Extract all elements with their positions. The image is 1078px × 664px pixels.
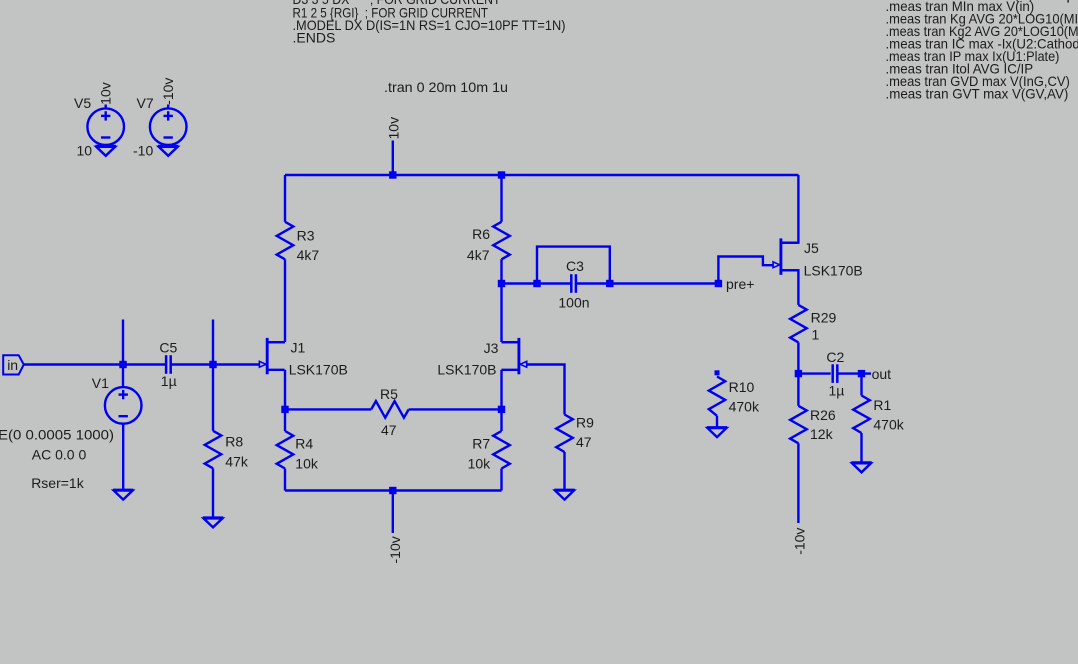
svg-text:V7: V7 bbox=[137, 95, 154, 111]
svg-text:47k: 47k bbox=[225, 454, 249, 470]
svg-text:1: 1 bbox=[812, 327, 820, 343]
svg-text:470k: 470k bbox=[873, 417, 904, 433]
ground at R1 bbox=[851, 463, 871, 473]
node I (C2 / out / R1) bbox=[858, 370, 865, 377]
wire V1 top lead bbox=[122, 365, 124, 388]
svg-text:100n: 100n bbox=[558, 294, 589, 310]
voltage source V7 bbox=[150, 108, 187, 145]
wire R6 top lead bbox=[500, 175, 502, 222]
ground at V5 bbox=[96, 146, 116, 156]
wire R26 bottom lead bbox=[797, 443, 799, 523]
capacitor C2 symbol bbox=[833, 364, 838, 383]
wire R29 bottom lead bbox=[797, 342, 799, 373]
svg-text:AC 0.0 0: AC 0.0 0 bbox=[32, 447, 87, 463]
wire C2 left lead bbox=[798, 372, 830, 374]
wire stub above node A bbox=[122, 320, 124, 365]
svg-text:10k: 10k bbox=[468, 456, 492, 472]
svg-text:pre+: pre+ bbox=[726, 276, 754, 292]
resistor R9 bbox=[556, 415, 573, 453]
svg-text:R29: R29 bbox=[811, 309, 837, 325]
wire R7 bottom lead bbox=[500, 469, 502, 491]
ground at R8 bbox=[203, 518, 223, 528]
ground at R10 bbox=[707, 427, 727, 437]
svg-text:R10: R10 bbox=[729, 379, 755, 395]
node E (R6 / C3 wire) bbox=[498, 280, 505, 287]
ground at V7 bbox=[158, 146, 178, 156]
svg-text:1µ: 1µ bbox=[161, 373, 177, 389]
node pre+ node bbox=[715, 280, 722, 287]
wire V1 bottom lead bbox=[122, 424, 124, 490]
svg-text:J1: J1 bbox=[291, 339, 306, 355]
node R10 floating node bbox=[715, 370, 720, 375]
wire -10v bottom rail bbox=[285, 489, 502, 491]
node H (R29 / C2 / R26) bbox=[795, 370, 802, 377]
transistor J1 bbox=[259, 338, 284, 374]
wire J1 drain to R3 bbox=[267, 341, 285, 343]
svg-text:12k: 12k bbox=[810, 426, 834, 442]
wire -10v supply stub bbox=[392, 491, 394, 534]
svg-text:470k: 470k bbox=[729, 399, 760, 415]
svg-text:-10v: -10v bbox=[792, 528, 808, 555]
svg-text:C5: C5 bbox=[159, 340, 177, 356]
wire 10v top rail bbox=[285, 174, 798, 176]
wire R4 bottom lead bbox=[284, 469, 286, 491]
spice directive text block (subcircuit model) bbox=[293, 0, 566, 46]
wire R26 top lead bbox=[797, 374, 799, 406]
capacitor C5 symbol bbox=[166, 355, 171, 374]
svg-text:.tran 0 20m 10m 1u: .tran 0 20m 10m 1u bbox=[384, 79, 508, 95]
node F (loop left) bbox=[533, 280, 540, 287]
transistor J5 bbox=[773, 238, 798, 274]
svg-text:J5: J5 bbox=[804, 240, 819, 256]
svg-text:-10: -10 bbox=[133, 143, 153, 159]
svg-text:R6: R6 bbox=[472, 226, 490, 242]
wire R10 bottom lead bbox=[716, 416, 718, 428]
svg-text:-10v: -10v bbox=[160, 78, 176, 105]
svg-text:10: 10 bbox=[77, 143, 93, 159]
svg-text:R7: R7 bbox=[472, 436, 490, 452]
svg-text:.ENDS: .ENDS bbox=[293, 30, 336, 46]
wire C5 to node B bbox=[171, 363, 260, 365]
wire R4 top lead bbox=[284, 409, 286, 431]
svg-text:10v: 10v bbox=[98, 82, 114, 105]
wire R6 bottom to C3 row bbox=[502, 282, 571, 284]
svg-text:C2: C2 bbox=[826, 349, 844, 365]
svg-text:.meas tran GVT max V(GV,AV): .meas tran GVT max V(GV,AV) bbox=[886, 86, 1069, 102]
resistor R29 bbox=[790, 305, 807, 343]
svg-text:V5: V5 bbox=[74, 95, 91, 111]
wire 10v supply stub bbox=[392, 141, 394, 176]
node G (loop right) bbox=[606, 280, 613, 287]
svg-text:LSK170B: LSK170B bbox=[804, 263, 863, 279]
node -10v stub / rail bbox=[389, 487, 396, 494]
ground at R9 bbox=[554, 490, 574, 500]
svg-text:4k7: 4k7 bbox=[467, 247, 490, 263]
voltage source V1 bbox=[105, 387, 142, 424]
ground at V1 bbox=[113, 490, 133, 500]
node B (C5 / R8 / J1 gate) bbox=[209, 361, 216, 368]
node D (J3 source / R7 / R5) bbox=[498, 406, 505, 413]
wire J3 drain to R6 bbox=[502, 341, 519, 343]
wire J1 source down bbox=[284, 370, 286, 410]
svg-text:V1: V1 bbox=[92, 375, 109, 391]
wire R8 top lead bbox=[212, 365, 214, 431]
svg-text:R3: R3 bbox=[297, 227, 315, 243]
wire J5 drain to rail bbox=[781, 175, 799, 243]
wire R1 top lead bbox=[860, 374, 862, 396]
svg-text:J3: J3 bbox=[484, 340, 499, 356]
port flag in bbox=[3, 355, 24, 374]
wire V7 plus stub bbox=[167, 105, 169, 109]
svg-text:4k7: 4k7 bbox=[297, 247, 320, 263]
wire J3 gate to R9 bbox=[527, 365, 565, 415]
svg-text:SINE(0 0.0005 1000): SINE(0 0.0005 1000) bbox=[0, 427, 114, 443]
wire R7 top lead bbox=[500, 409, 502, 431]
svg-text:Rser=1k: Rser=1k bbox=[31, 475, 85, 491]
svg-text:LSK170B: LSK170B bbox=[289, 362, 348, 378]
svg-text:R9: R9 bbox=[576, 414, 594, 430]
wire bypass loop over C3 bbox=[537, 247, 610, 284]
node C (J1 source / R4 / R5) bbox=[281, 406, 288, 413]
wire C3 right to pre+ bbox=[577, 282, 719, 284]
svg-text:1µ: 1µ bbox=[829, 383, 845, 399]
wire V5 plus stub bbox=[104, 105, 106, 109]
transistor J3 bbox=[502, 338, 527, 374]
cut-off text fragment top right bbox=[1067, 0, 1069, 3]
node rail / R6 bbox=[498, 171, 505, 178]
svg-text:R8: R8 bbox=[225, 433, 243, 449]
wire R3 bottom lead bbox=[284, 259, 286, 342]
svg-text:-10v: -10v bbox=[387, 536, 403, 563]
svg-text:R26: R26 bbox=[810, 407, 836, 423]
svg-text:10k: 10k bbox=[295, 456, 319, 472]
wire J3 source down bbox=[500, 370, 502, 410]
wire R5 left lead bbox=[285, 408, 371, 410]
svg-text:out: out bbox=[872, 366, 892, 382]
spice directive .meas text block bbox=[886, 0, 1078, 102]
wire pre+ to J5 gate bbox=[718, 257, 773, 284]
svg-text:47: 47 bbox=[576, 434, 592, 450]
wire R1 bottom lead bbox=[860, 433, 862, 463]
svg-text:10v: 10v bbox=[385, 117, 401, 140]
voltage source V5 bbox=[87, 108, 124, 145]
wire J5 source down bbox=[781, 270, 799, 305]
svg-text:C3: C3 bbox=[566, 258, 584, 274]
wire stub above node B bbox=[212, 320, 214, 365]
wire C2 right lead bbox=[838, 372, 871, 374]
svg-text:R1: R1 bbox=[873, 397, 891, 413]
svg-text:in: in bbox=[7, 357, 18, 373]
node A (in wire / V1) bbox=[119, 361, 126, 368]
svg-text:R4: R4 bbox=[295, 436, 313, 452]
wire R6 bottom lead bbox=[500, 259, 502, 342]
wire input horizontal bbox=[24, 363, 166, 365]
svg-text:47: 47 bbox=[381, 422, 397, 438]
capacitor C3 symbol bbox=[571, 274, 576, 293]
wire R5 right lead bbox=[409, 408, 502, 410]
wire R9 bottom lead bbox=[563, 452, 565, 490]
wire R3 top lead bbox=[284, 175, 286, 222]
node 10v stub / rail bbox=[389, 171, 396, 178]
svg-text:LSK170B: LSK170B bbox=[437, 362, 496, 378]
svg-text:R5: R5 bbox=[380, 386, 398, 402]
wire R8 bottom lead bbox=[212, 468, 214, 517]
